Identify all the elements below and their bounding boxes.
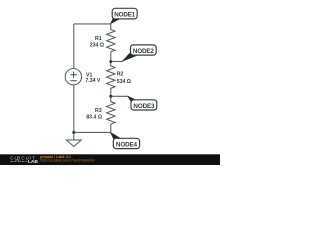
node NODE2 flag: [121, 45, 156, 62]
wire stub to NODE3: [111, 95, 129, 97]
svg-text:LAB: LAB: [28, 159, 39, 165]
svg-text:http://circuitlab.com/c7wsd74q: http://circuitlab.com/c7wsd74q66ufk/: [40, 158, 95, 162]
svg-text:534 Ω: 534 Ω: [117, 79, 131, 85]
svg-text:234 Ω: 234 Ω: [90, 43, 104, 49]
svg-text:83.4 Ω: 83.4 Ω: [86, 115, 102, 121]
svg-text:NODE3: NODE3: [133, 103, 155, 110]
wire stub to NODE2: [111, 61, 123, 63]
junction dot (ground): [72, 131, 75, 134]
svg-text:NODE4: NODE4: [116, 142, 138, 149]
footer bar: [0, 154, 220, 165]
node NODE3 flag: [127, 96, 157, 111]
junction dot (R2/R3/NODE3): [109, 95, 112, 98]
wire top horizontal: [74, 23, 111, 25]
svg-text:R1: R1: [95, 36, 102, 42]
node NODE4 flag: [110, 132, 140, 149]
wire left rail upper: [73, 24, 75, 69]
resistor R1: [107, 24, 115, 62]
wire left rail lower: [73, 85, 75, 132]
resistor R3: [107, 96, 115, 132]
ground: [66, 132, 81, 146]
svg-text:7.34 V: 7.34 V: [85, 78, 101, 84]
svg-text:NODE2: NODE2: [133, 48, 155, 55]
wire bottom horizontal: [74, 131, 111, 133]
svg-text:R3: R3: [95, 108, 102, 114]
junction dot (R1/R2/NODE2): [109, 60, 112, 63]
node NODE1 flag: [110, 8, 137, 24]
svg-text:R2: R2: [117, 71, 124, 77]
resistor R2: [107, 62, 115, 97]
footer logo waveform: [11, 160, 28, 162]
voltage source V1: [65, 69, 81, 85]
svg-text:NODE1: NODE1: [114, 12, 136, 19]
